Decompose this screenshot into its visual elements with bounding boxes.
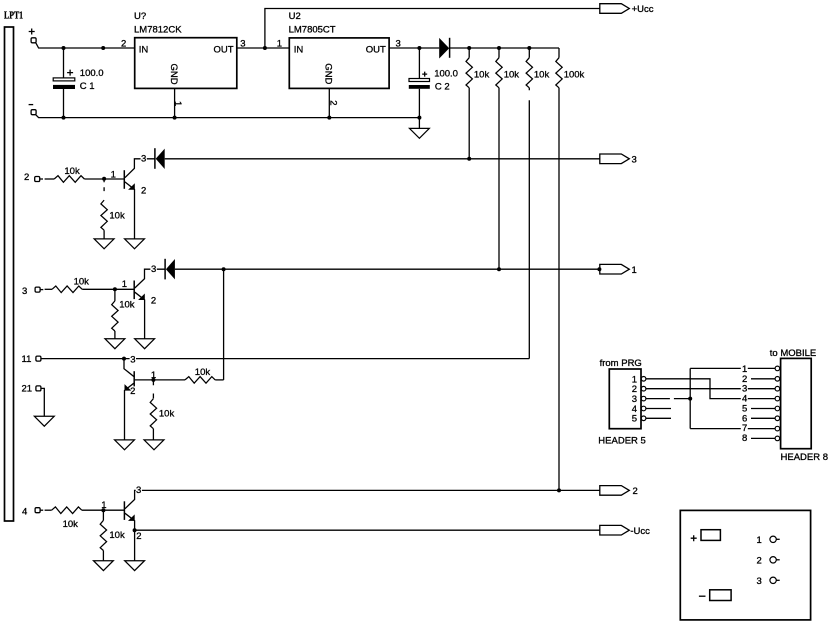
capacitor C2 lead bottom — [418, 89, 420, 118]
capacitor C1 polarity + — [67, 70, 73, 76]
diode D2 cathode bar — [154, 148, 156, 169]
terminal + (plus sign) — [29, 29, 35, 35]
battery panel box — [680, 510, 810, 620]
J2 pin numbers — [741, 364, 748, 444]
wire + terminal to U1 IN — [36, 43, 135, 48]
svg-text:U?: U? — [134, 11, 146, 22]
node C2 top — [417, 46, 421, 50]
wire pin11 line — [41, 358, 529, 360]
wire U1 OUT to U2 IN — [237, 47, 289, 49]
node R3 top — [527, 46, 531, 50]
transistor Q2 base bar — [133, 281, 135, 300]
svg-text:11: 11 — [22, 354, 32, 365]
svg-text:-Ucc: -Ucc — [630, 526, 650, 537]
transistor Q1 base bar — [123, 170, 125, 189]
svg-text:3: 3 — [141, 153, 146, 164]
resistor R12 10k pulldown — [102, 510, 104, 520]
node R4 line2 — [557, 488, 561, 492]
header J2 HEADER 8 body — [781, 358, 812, 448]
Q3 emitter pin 2 label — [131, 386, 137, 394]
U2 GND pin wire — [328, 88, 330, 117]
terminal - (minus sign) — [29, 104, 34, 106]
svg-text:to MOBILE: to MOBILE — [770, 348, 816, 359]
J1 pin pads — [641, 377, 646, 382]
node J bus — [688, 397, 692, 401]
svg-text:1: 1 — [172, 101, 183, 106]
Q1 collector pin 3 label — [141, 154, 147, 162]
svg-text:U2: U2 — [289, 11, 301, 22]
svg-text:10k: 10k — [119, 300, 135, 311]
resistor R3 lead to pin11 line (with gap) — [528, 88, 530, 359]
wire J1.4 stub — [646, 408, 671, 410]
svg-text:2: 2 — [757, 555, 762, 566]
resistor R2 10k — [498, 48, 500, 58]
node line1 at port — [597, 267, 601, 271]
R10 lead to ground — [152, 429, 154, 440]
wire J2.8 stub — [751, 437, 776, 439]
svg-text:100.0: 100.0 — [80, 68, 104, 79]
svg-text:10k: 10k — [109, 210, 125, 221]
transistor Q3 base bar — [133, 371, 135, 389]
resistor R4 lead to line 2 — [558, 88, 560, 491]
diode D1 triangle — [439, 38, 449, 59]
svg-text:10k: 10k — [504, 69, 520, 80]
resistor R6 10k pulldown (gapped lead) — [103, 179, 105, 191]
terminal pin3 pad — [35, 287, 40, 292]
wire R9 to line1 tap — [215, 379, 223, 381]
terminal pin11 pad — [36, 356, 41, 361]
resistor R1 lead to line 3 — [468, 88, 470, 159]
svg-text:1: 1 — [757, 535, 762, 546]
terminal pin2 stub — [40, 178, 43, 180]
Q3 base wire — [135, 379, 154, 381]
svg-text:3: 3 — [22, 286, 27, 297]
wire to +Ucc port — [265, 9, 600, 49]
svg-text:1: 1 — [111, 170, 116, 181]
ground Q4 emitter — [125, 561, 145, 571]
capacitor C1 plus plate — [53, 78, 75, 81]
svg-text:HEADER 5: HEADER 5 — [598, 435, 646, 446]
diode D2 triangle — [156, 149, 165, 169]
svg-text:10k: 10k — [63, 519, 79, 530]
capacitor C2 plus plate — [409, 79, 430, 82]
svg-text:GND: GND — [323, 63, 334, 84]
Q3 collector pin 3 label — [130, 354, 136, 362]
svg-text:1: 1 — [632, 265, 637, 276]
svg-text:10k: 10k — [109, 530, 125, 541]
J2 pin pads — [775, 366, 780, 371]
capacitor C1 lead bottom — [63, 89, 65, 118]
Q4 emitter pin 2 label — [136, 532, 142, 540]
capacitor C2 polarity + — [422, 72, 427, 77]
svg-text:LM7805CT: LM7805CT — [289, 25, 336, 36]
terminal pin21 pad — [36, 386, 41, 391]
transistor Q1 collector — [125, 159, 155, 178]
Q3 emitter arrow — [125, 384, 132, 391]
node Q4 base — [101, 508, 105, 512]
terminal pin4 pad — [35, 508, 40, 513]
resistor R5 10k horizontal — [54, 176, 84, 183]
svg-text:1: 1 — [277, 38, 282, 49]
resistor R2 lead to line 1 — [498, 88, 500, 269]
Q1 emitter arrow — [128, 183, 135, 190]
transistor Q2 emitter — [135, 292, 145, 339]
svg-text:4: 4 — [22, 507, 27, 518]
wire J1.3 stub (gapped) — [646, 398, 690, 400]
terminal pin2 pad — [35, 177, 40, 182]
capacitor C2 minus plate — [409, 85, 430, 89]
wire -Ucc line — [135, 529, 600, 531]
diode D1 cathode bar — [449, 38, 451, 58]
svg-text:100k: 100k — [564, 69, 585, 80]
svg-text:+Ucc: +Ucc — [632, 4, 654, 15]
svg-text:10k: 10k — [534, 69, 550, 80]
ground Q3 emitter — [115, 440, 135, 450]
transistor Q4 collector — [125, 490, 600, 508]
node rail U2 GND — [327, 116, 331, 120]
svg-text:LPT1: LPT1 — [4, 10, 23, 21]
node rail U1 GND — [173, 116, 177, 120]
svg-text:10k: 10k — [195, 367, 211, 378]
ground below C2 — [410, 128, 430, 138]
resistor R11 10k horizontal — [52, 507, 82, 514]
transistor Q4 emitter — [125, 513, 135, 561]
resistor R3 10k — [528, 48, 530, 58]
ground R6 — [94, 239, 114, 249]
node on input wire — [101, 46, 105, 50]
svg-text:1: 1 — [122, 279, 127, 290]
wire J2.5 stub — [751, 408, 776, 410]
R12 lead to ground — [102, 551, 104, 561]
transistor Q4 base bar — [123, 501, 125, 520]
node Q3 base — [151, 378, 155, 382]
svg-text:3: 3 — [130, 354, 135, 365]
wire J bus to J2.1 — [690, 367, 775, 369]
transistor Q3 emitter — [125, 383, 134, 440]
Q4 collector pin 3 label — [136, 486, 142, 494]
node +Ucc tap — [263, 46, 267, 50]
wire line 3 to port — [165, 158, 600, 160]
wire C2 to ground — [418, 118, 420, 129]
svg-text:10k: 10k — [474, 69, 490, 80]
wire J1.2 to J2.3 — [646, 388, 776, 390]
Q4 emitter arrow — [128, 514, 135, 521]
battery + sign — [691, 535, 697, 541]
transistor Q2 collector — [135, 269, 165, 288]
wire pin2 to resistor — [45, 178, 55, 180]
capacitor C1 lead top — [63, 48, 65, 78]
svg-text:C 1: C 1 — [80, 81, 95, 92]
wire J1.1 to J2.4 — [646, 379, 776, 399]
svg-text:2: 2 — [130, 386, 135, 397]
wire pin21 to ground — [41, 388, 44, 416]
node Q3 collector tap — [122, 357, 126, 361]
node R1 line3 — [467, 157, 471, 161]
regulator U1 body — [135, 38, 237, 89]
node C1 top — [62, 46, 66, 50]
svg-text:2: 2 — [328, 100, 339, 105]
resistor R4 100k — [558, 48, 560, 58]
node rail C2 — [417, 116, 421, 120]
resistor R7 10k horizontal — [52, 286, 82, 293]
ground R10 — [144, 440, 164, 450]
ground rail wire — [36, 115, 420, 118]
ground Q1 emitter — [125, 239, 145, 249]
port 3 — [600, 154, 630, 164]
node Q1 base — [102, 177, 106, 181]
svg-text:10k: 10k — [159, 408, 175, 419]
wire J2.2 stub — [751, 378, 776, 380]
svg-text:2: 2 — [633, 486, 638, 497]
capacitor C1 minus plate — [53, 85, 75, 89]
wire J1.5 stub — [646, 417, 671, 419]
port 1 — [600, 264, 630, 274]
regulator U2 body — [289, 38, 389, 89]
svg-text:100.0: 100.0 — [434, 68, 458, 79]
node R2 line1 — [497, 267, 501, 271]
node R1 top — [467, 46, 471, 50]
terminal pin3 stub — [40, 289, 43, 291]
svg-text:from PRG: from PRG — [600, 358, 642, 369]
svg-text:IN: IN — [294, 45, 304, 56]
svg-text:IN: IN — [139, 45, 149, 56]
ground Q2 emitter — [135, 339, 155, 349]
battery - pad — [710, 590, 731, 601]
port -Ucc — [600, 525, 630, 535]
wire J2.6 stub — [751, 417, 776, 419]
header J1 HEADER 5 body — [609, 369, 641, 429]
resistor R9 10k horizontal — [185, 377, 215, 384]
svg-text:HEADER 8: HEADER 8 — [781, 452, 829, 463]
terminal pin4 stub — [40, 509, 43, 511]
wire resistor to Q4 base — [82, 509, 125, 511]
svg-text:21: 21 — [22, 384, 33, 395]
wire resistor to Q1 base — [84, 178, 124, 180]
diode D3 cathode bar — [164, 259, 166, 280]
terminal + pad — [31, 38, 36, 43]
svg-text:3: 3 — [136, 485, 141, 496]
wire resistor to Q2 base — [82, 288, 134, 290]
node rail C1 — [62, 116, 66, 120]
svg-text:1: 1 — [101, 500, 106, 511]
wire pin4 to resistor — [45, 509, 52, 511]
connector LPT1 body — [5, 27, 14, 521]
svg-text:5: 5 — [632, 414, 637, 425]
Q2 emitter arrow — [138, 294, 145, 301]
wire pin3 to resistor — [45, 288, 52, 290]
svg-text:2: 2 — [151, 296, 156, 307]
svg-text:10k: 10k — [64, 166, 80, 177]
svg-text:C 2: C 2 — [435, 81, 450, 92]
svg-text:2: 2 — [24, 172, 29, 183]
node R2 top — [497, 46, 501, 50]
wire base to resistor R9 — [153, 379, 185, 381]
transistor Q1 emitter — [125, 182, 135, 239]
node Q4 emitter to -Ucc — [133, 528, 137, 532]
svg-text:3: 3 — [151, 264, 156, 275]
svg-text:2: 2 — [136, 531, 141, 542]
node line1 Q3 tap — [222, 267, 226, 271]
U1 GND pin wire — [174, 88, 176, 117]
wire U2 OUT to diode — [389, 47, 439, 49]
ground pin21 — [34, 416, 54, 426]
R8 lead to ground — [114, 331, 116, 339]
svg-text:OUT: OUT — [366, 45, 386, 56]
resistor R10 10k pulldown (gapped lead) — [152, 380, 154, 399]
Q2 collector pin 3 label — [150, 264, 156, 272]
wire line1 tap down to Q3 resistor — [223, 269, 225, 380]
wire diode to resistor rail — [450, 47, 559, 49]
capacitor C2 lead top — [418, 48, 420, 79]
port +Ucc — [600, 4, 630, 14]
svg-text:OUT: OUT — [214, 45, 234, 56]
port 2 — [600, 486, 630, 496]
svg-text:8: 8 — [742, 433, 747, 444]
battery - sign — [699, 595, 706, 597]
terminal - pad — [31, 110, 36, 115]
svg-text:LM7812CK: LM7812CK — [134, 25, 182, 36]
diode D3 triangle — [166, 259, 175, 279]
svg-text:3: 3 — [632, 154, 637, 165]
svg-text:2: 2 — [121, 38, 126, 49]
R6 lead to ground — [103, 230, 105, 239]
ground R8 — [105, 339, 125, 349]
svg-text:10k: 10k — [74, 276, 90, 287]
transistor Q3 collector — [124, 359, 134, 377]
wire J bus to J2.7 — [690, 428, 775, 430]
resistor R8 10k pulldown — [114, 289, 116, 301]
svg-text:3: 3 — [757, 576, 762, 587]
svg-text:2: 2 — [141, 186, 146, 197]
wire J bus vertical — [689, 368, 691, 428]
ground R12 — [94, 561, 114, 571]
resistor R1 10k — [468, 48, 470, 58]
svg-text:GND: GND — [168, 64, 179, 85]
wire line 1 to port — [175, 268, 600, 270]
battery + pad — [701, 530, 720, 541]
node Q2 base — [113, 287, 117, 291]
